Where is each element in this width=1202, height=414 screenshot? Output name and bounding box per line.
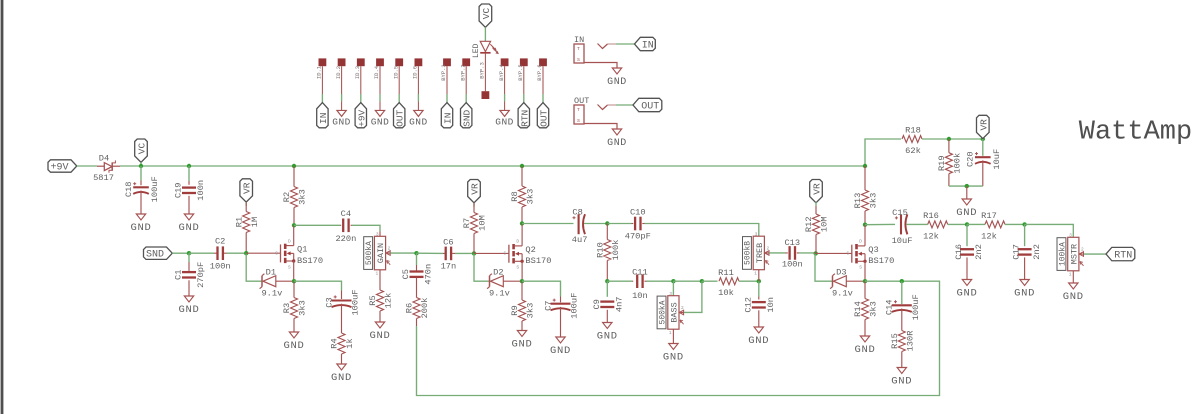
svg-text:G: G [504, 251, 507, 257]
resistor R8 3k3 [519, 186, 526, 207]
junction Q1 drain node [292, 223, 296, 227]
wire C2 to Q1 gate node [227, 252, 247, 254]
Q3 drain lead [864, 225, 866, 246]
junction Q3 drain node [863, 223, 867, 227]
svg-text:BYP.3: BYP.3 [479, 62, 486, 79]
supply flag VC (LED column) [479, 4, 492, 27]
svg-text:OUT: OUT [641, 102, 659, 113]
potentiometer MSTR 100kA [1057, 238, 1066, 271]
ground C9 [603, 323, 612, 329]
svg-text:MSTR: MSTR [1069, 244, 1079, 264]
pad BYP.1 [443, 58, 451, 66]
Q1 drain lead [293, 225, 295, 245]
junction R10 top node [605, 221, 609, 225]
transistor Q3 BS170 [815, 252, 852, 254]
svg-text:1k: 1k [345, 338, 355, 348]
svg-text:GND: GND [956, 207, 977, 219]
supply flag VC on rail [135, 139, 148, 162]
svg-text:Q3: Q3 [868, 245, 878, 255]
svg-text:VC: VC [481, 8, 492, 20]
wire C13 to Q3 gate node [799, 252, 815, 254]
svg-text:GND: GND [283, 340, 304, 352]
ground C18 [136, 214, 145, 220]
wire SND to C2 [172, 252, 189, 254]
svg-text:D: D [288, 238, 291, 244]
svg-text:10M: 10M [478, 215, 488, 231]
svg-text:100uF: 100uF [350, 289, 360, 315]
svg-text:C8: C8 [572, 207, 582, 217]
resistor R12 10M [815, 202, 817, 206]
svg-text:GND: GND [332, 116, 351, 127]
ground C1 [184, 296, 193, 302]
wire jack OUT tip to flag [616, 104, 633, 106]
svg-text:R8: R8 [510, 191, 520, 201]
svg-text:S: S [859, 265, 862, 271]
resistor R11 10k [719, 278, 739, 285]
junction Q2 source node [520, 279, 524, 283]
svg-text:ID.6: ID.6 [412, 66, 419, 79]
svg-text:TREB: TREB [755, 243, 765, 263]
svg-text:T: T [577, 107, 580, 113]
resistor R1 1M [245, 202, 247, 206]
junction tone node A [605, 279, 609, 283]
ground for ID.4 [379, 94, 381, 102]
svg-text:C7: C7 [543, 300, 553, 310]
pad ID.3 [357, 58, 365, 66]
svg-text:VR: VR [978, 119, 989, 131]
svg-text:9.1v: 9.1v [489, 288, 510, 298]
junction Q1 gate node [244, 251, 248, 255]
svg-text:ID.3: ID.3 [354, 66, 361, 79]
svg-text:10uF: 10uF [892, 236, 913, 246]
svg-text:T: T [577, 46, 580, 52]
wire rail up to R18 [865, 139, 901, 166]
svg-text:R4: R4 [330, 338, 340, 348]
label flag IN [635, 37, 656, 50]
svg-text:100k: 100k [953, 153, 963, 174]
svg-text:4u7: 4u7 [572, 235, 588, 245]
svg-text:GND: GND [748, 335, 769, 347]
svg-text:100uF: 100uF [150, 176, 160, 202]
svg-text:C2: C2 [215, 237, 225, 247]
svg-text:S: S [577, 118, 580, 124]
wire GAIN wiper to C5 node [391, 252, 417, 254]
svg-text:D1: D1 [266, 268, 276, 278]
svg-text:SND: SND [462, 109, 473, 126]
svg-text:10n: 10n [766, 297, 776, 313]
pad BYP.6 [539, 58, 547, 66]
ground R9 [517, 331, 526, 337]
ground C19 [184, 214, 193, 220]
svg-text:100n: 100n [210, 262, 231, 272]
svg-text:RTN: RTN [519, 110, 530, 127]
svg-text:OUT: OUT [395, 109, 406, 126]
svg-text:SND: SND [146, 250, 164, 261]
supply flag VR for R12 [810, 180, 823, 203]
ground BASS pot [672, 329, 674, 343]
wire to R17 [967, 223, 985, 225]
resistor R19 100k [945, 153, 952, 174]
svg-text:2: 2 [681, 305, 684, 311]
svg-text:ID.1: ID.1 [316, 65, 323, 79]
svg-text:3k3: 3k3 [869, 301, 879, 317]
svg-text:1: 1 [1069, 271, 1072, 277]
wire source node to C14 [865, 280, 902, 282]
svg-text:200k: 200k [420, 298, 430, 319]
pad BYP.4 [501, 58, 509, 66]
svg-text:C1: C1 [174, 270, 184, 280]
svg-text:C15: C15 [892, 208, 908, 218]
svg-text:GND: GND [371, 116, 390, 127]
ground for BYP.4 [504, 94, 506, 102]
pad BYP.5 [520, 58, 528, 66]
svg-text:C14: C14 [885, 299, 895, 315]
svg-text:500kB: 500kB [744, 241, 753, 265]
wire drain node to C4 [294, 224, 341, 226]
resistor R15 130R [898, 331, 905, 352]
svg-text:BASS: BASS [669, 302, 679, 322]
junction VC rail [139, 164, 143, 168]
svg-text:10k: 10k [718, 288, 734, 298]
wire gate node down to D2 [474, 253, 489, 281]
svg-text:GND: GND [607, 138, 627, 149]
svg-text:GND: GND [331, 372, 352, 384]
svg-text:10n: 10n [632, 291, 648, 301]
svg-text:R1: R1 [234, 217, 244, 227]
svg-text:3k3: 3k3 [869, 193, 879, 209]
svg-text:D: D [859, 239, 862, 245]
capacitor C16 2n2 [966, 224, 968, 246]
label flag RTN [1106, 247, 1135, 260]
pad ID.1 [319, 58, 327, 66]
svg-text:500kA: 500kA [365, 241, 374, 265]
ground R5 [375, 322, 384, 328]
svg-text:3: 3 [669, 291, 672, 297]
svg-text:130R: 130R [905, 331, 915, 352]
svg-text:3: 3 [376, 232, 379, 238]
label flag SND [144, 247, 173, 259]
svg-text:R10: R10 [595, 242, 605, 258]
svg-text:3k3: 3k3 [526, 303, 536, 319]
svg-text:270pF: 270pF [196, 262, 206, 288]
capacitor C14 100uF [901, 281, 903, 304]
switch contact of jack IN [598, 44, 608, 49]
svg-text:+9V: +9V [356, 109, 367, 126]
capacitor C6 17n [443, 252, 445, 254]
wire C8 to R10 node [584, 223, 607, 225]
svg-text:R11: R11 [718, 268, 734, 278]
svg-text:GND: GND [1063, 291, 1084, 303]
svg-text:BYP.5: BYP.5 [517, 64, 524, 81]
wire R17 to node [1005, 223, 1025, 225]
wire to C10 [607, 223, 631, 225]
resistor R17 12k [985, 221, 1005, 228]
ground R15 [897, 368, 906, 374]
svg-text:Q2: Q2 [525, 245, 535, 255]
wire C4 to GAIN pot [352, 225, 380, 231]
supply flag VR for R7 [468, 180, 481, 203]
supply flag VR at filter [977, 115, 990, 138]
svg-text:3k3: 3k3 [526, 189, 536, 205]
capacitor C12 10n [758, 281, 760, 296]
junction R2 rail [292, 164, 296, 168]
svg-text:C12: C12 [743, 297, 753, 313]
Q2 drain lead [521, 224, 523, 246]
svg-text:GND: GND [178, 304, 199, 316]
ground C7 [556, 337, 565, 343]
svg-text:GND: GND [607, 77, 627, 88]
ground for ID.6 [417, 94, 419, 102]
pad ID.4 [376, 58, 384, 66]
wire / label flag OUT for BYP.6 [542, 94, 544, 103]
pad ID.6 [415, 58, 423, 66]
svg-text:GND: GND [1014, 288, 1035, 300]
svg-text:GAIN: GAIN [376, 243, 386, 263]
capacitor C2 100n [214, 252, 217, 254]
ground of jack IN [584, 63, 617, 69]
svg-text:VR: VR [242, 182, 253, 194]
svg-text:R17: R17 [981, 211, 997, 221]
svg-text:100n: 100n [782, 260, 803, 270]
zener diode D1 9.1v [261, 276, 263, 287]
svg-text:100uF: 100uF [911, 294, 921, 320]
svg-text:GND: GND [663, 352, 684, 364]
wire Q2 drain to C8 [522, 223, 574, 225]
svg-text:C11: C11 [632, 268, 648, 278]
capacitor C20 10uF [982, 139, 984, 156]
wire R16 to node [948, 223, 967, 225]
svg-text:R7: R7 [462, 218, 472, 228]
svg-text:2n2: 2n2 [974, 244, 984, 260]
capacitor C13 100n [786, 252, 788, 254]
svg-text:ID.4: ID.4 [373, 65, 380, 79]
svg-text:4n7: 4n7 [614, 296, 624, 312]
resistor R9 3k3 [519, 300, 526, 321]
svg-text:C3: C3 [324, 297, 334, 307]
svg-text:BYP.2: BYP.2 [459, 64, 466, 81]
wire TREB wiper to C13 [769, 252, 785, 254]
svg-text:2: 2 [1081, 247, 1084, 253]
svg-text:3k3: 3k3 [298, 300, 308, 316]
junction Q3 gate node [814, 251, 818, 255]
svg-text:GND: GND [956, 288, 977, 300]
svg-text:R16: R16 [923, 211, 939, 221]
svg-text:IN: IN [318, 113, 329, 124]
svg-text:1: 1 [669, 330, 672, 336]
svg-text:R13: R13 [853, 193, 863, 209]
svg-text:GND: GND [495, 116, 514, 127]
wire C6 to Q2 gate node [455, 252, 474, 254]
svg-text:C9: C9 [592, 299, 602, 309]
svg-text:62k: 62k [905, 146, 921, 156]
svg-text:100uF: 100uF [569, 293, 579, 319]
junction BASS wiper node [700, 279, 704, 283]
potentiometer GAIN 500kA [364, 237, 373, 270]
svg-text:BYP.6: BYP.6 [536, 64, 543, 81]
wire C15 to R16 [907, 223, 928, 225]
svg-text:GND: GND [891, 376, 912, 388]
svg-text:R2: R2 [282, 192, 292, 202]
resistor R18 62k [902, 136, 922, 143]
switch contact of jack OUT [598, 105, 608, 110]
svg-text:R9: R9 [510, 305, 520, 315]
svg-text:BS170: BS170 [868, 256, 894, 266]
svg-text:WattAmp: WattAmp [1079, 118, 1192, 148]
svg-text:2n2: 2n2 [1032, 244, 1042, 260]
wire C11 to BASS node [647, 280, 674, 282]
wire to R11 [702, 280, 718, 282]
svg-text:Q1: Q1 [297, 245, 307, 255]
resistor R16 12k [928, 221, 948, 228]
junction GAIN wiper node [414, 251, 418, 255]
svg-text:S: S [516, 265, 519, 271]
resistor R3 3k3 [291, 298, 298, 319]
capacitor C5 470n [416, 253, 418, 265]
svg-text:3k3: 3k3 [298, 189, 308, 205]
svg-text:BS170: BS170 [297, 256, 323, 266]
junction VR node [981, 137, 985, 141]
resistor R14 3k3 [862, 299, 869, 320]
svg-text:+9V: +9V [50, 163, 68, 174]
capacitor C10 470pF [632, 223, 634, 225]
svg-text:ID.5: ID.5 [392, 66, 399, 79]
svg-text:3: 3 [755, 231, 758, 237]
svg-text:R5: R5 [368, 295, 378, 305]
svg-text:10uF: 10uF [992, 149, 1002, 170]
svg-text:VR: VR [470, 183, 481, 195]
svg-text:12k: 12k [384, 293, 394, 309]
wire jack IN tip to flag [616, 43, 635, 45]
svg-text:GND: GND [178, 222, 199, 234]
svg-text:500kA: 500kA [658, 300, 667, 324]
svg-text:D2: D2 [493, 268, 503, 278]
svg-text:C5: C5 [401, 269, 411, 279]
svg-text:12k: 12k [981, 231, 997, 241]
svg-text:1: 1 [375, 270, 378, 276]
wire / label flag RTN for BYP.5 [523, 94, 525, 103]
svg-text:G: G [275, 250, 278, 256]
resistor R5 12k below GAIN pot [379, 270, 381, 286]
svg-text:S: S [577, 57, 580, 63]
wire node A to C11 [607, 280, 632, 282]
junction BASS top node [671, 279, 675, 283]
svg-text:C20: C20 [966, 151, 976, 167]
label flag OUT [633, 98, 662, 111]
junction GND node VR filter [965, 184, 969, 188]
svg-text:RTN: RTN [1114, 251, 1132, 262]
zener diode D2 9.1v [489, 276, 491, 287]
svg-text:C10: C10 [630, 207, 646, 217]
wire LED to pad BYP.3 [484, 54, 486, 92]
svg-text:C17: C17 [1012, 244, 1022, 260]
svg-text:OUT: OUT [539, 109, 550, 126]
svg-text:R3: R3 [282, 303, 292, 313]
svg-text:GND: GND [550, 345, 571, 357]
wire / label flag IN for ID.1 [321, 94, 323, 103]
schematic frame left border [1, 0, 4, 414]
svg-text:IN: IN [443, 113, 454, 124]
potentiometer BASS 500kA [672, 281, 674, 296]
feedback wire R6 to output stage [417, 281, 940, 395]
svg-text:GND: GND [369, 330, 390, 342]
pad BYP.2 [462, 58, 470, 66]
junction R13 rail [863, 164, 867, 168]
svg-text:GND: GND [511, 339, 532, 351]
svg-text:R6: R6 [405, 303, 415, 313]
wire / label flag +9V for ID.3 [360, 94, 362, 103]
wire source node to C7 [522, 281, 561, 296]
capacitor C9 4n7 [606, 281, 608, 297]
capacitor C18 100uF [140, 166, 142, 181]
svg-text:GND: GND [854, 344, 875, 356]
ground MSTR pot [1072, 271, 1074, 283]
svg-text:R14: R14 [853, 301, 863, 317]
wire MSTR wiper to RTN flag [1084, 253, 1106, 255]
capacitor C11 10n [632, 280, 633, 282]
svg-text:IN: IN [642, 41, 654, 52]
resistor R7 10M [473, 203, 475, 207]
wire +9V to D4 [77, 165, 97, 167]
svg-text:470pF: 470pF [625, 232, 651, 242]
junction C19 rail [187, 164, 191, 168]
Q2 source lead [521, 261, 523, 281]
junction R19 node [947, 137, 951, 141]
capacitor C17 2n2 [1024, 224, 1026, 246]
wire R19 C20 bottom join [949, 185, 983, 187]
junction TREB bottom node [757, 279, 761, 283]
svg-text:S: S [288, 264, 291, 270]
zener diode D3 9.1v [832, 276, 834, 287]
wire node to MSTR pot [1025, 224, 1074, 237]
svg-text:R19: R19 [937, 155, 947, 171]
svg-text:1M: 1M [250, 217, 260, 227]
svg-text:GND: GND [130, 222, 151, 234]
svg-text:2: 2 [766, 245, 769, 251]
junction SND node [187, 251, 191, 255]
wire wiper node to C6 [417, 252, 444, 254]
svg-text:9.1v: 9.1v [261, 288, 282, 298]
junction Q2 gate node [472, 251, 476, 255]
wire / label flag SND for BYP.2 [465, 94, 467, 103]
supply flag VR for R1 [240, 179, 253, 202]
resistor R6 200k [413, 298, 420, 319]
wire / label flag IN for BYP.1 [446, 94, 448, 103]
svg-text:BYP.4: BYP.4 [498, 64, 505, 81]
wire BASS wiper up to node [684, 281, 702, 312]
junction R8 rail [520, 164, 524, 168]
svg-text:D: D [516, 239, 519, 245]
svg-text:17n: 17n [441, 262, 457, 272]
ground C12 [754, 327, 763, 333]
svg-text:BS170: BS170 [525, 256, 551, 266]
capacitor C7 100uF [560, 297, 562, 303]
wire C10 to TREB pot [645, 224, 759, 237]
wire source node to C3 [294, 281, 342, 290]
svg-text:100k: 100k [611, 240, 621, 261]
wire gate node down to D1 [246, 253, 262, 281]
svg-text:R18: R18 [905, 126, 921, 136]
ground VR filter [966, 186, 968, 199]
svg-text:VR: VR [812, 183, 823, 195]
pad BYP.3 [482, 91, 490, 99]
svg-text:BYP.1: BYP.1 [440, 64, 447, 81]
svg-text:C18: C18 [124, 181, 134, 197]
capacitor C1 270pF [188, 253, 190, 262]
svg-text:VC: VC [137, 143, 148, 155]
svg-text:GND: GND [409, 116, 428, 127]
junction C17 node [1022, 222, 1026, 226]
svg-text:C4: C4 [341, 209, 351, 219]
